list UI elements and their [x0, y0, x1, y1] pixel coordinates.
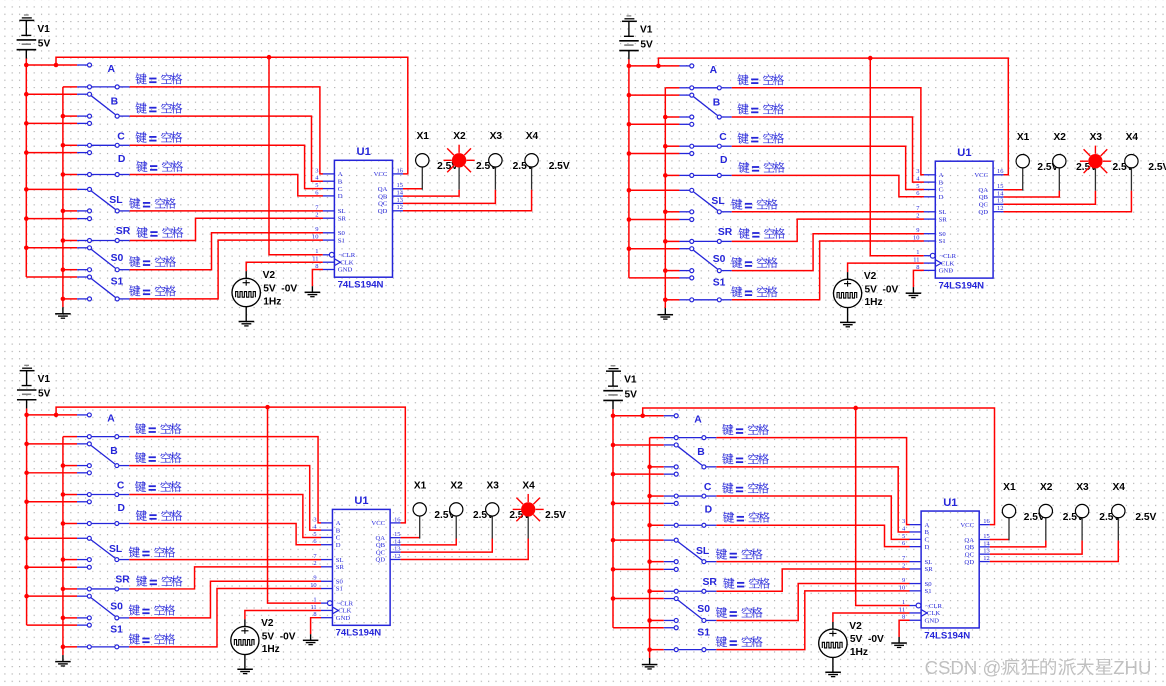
svg-text:V2: V2 [849, 621, 862, 632]
svg-text:D: D [705, 505, 713, 516]
svg-text:SL: SL [336, 557, 344, 564]
switch S1 (SPDT, key=space) [77, 275, 130, 301]
junction dot row A / top rail [656, 64, 661, 69]
probe lamp X4 [1125, 155, 1138, 191]
wire B-bottom feed from GND bus [665, 116, 679, 118]
svg-text:VCC: VCC [974, 172, 988, 179]
svg-text:SR: SR [939, 216, 948, 223]
svg-text:ZHU: ZHU [1113, 657, 1151, 678]
pin 2 (SR) stub [916, 212, 947, 223]
svg-text:9: 9 [313, 575, 316, 582]
IC U1 74LS194N body [921, 511, 979, 628]
label key = space (D) [723, 512, 770, 523]
svg-text:D: D [925, 544, 930, 551]
label key = space (S0) [716, 607, 763, 618]
junction dot row A / top rail [54, 413, 59, 418]
wire QA pin 15 to probe X1 [990, 539, 1009, 541]
svg-text:5V: 5V [38, 39, 51, 50]
wire switch S0 common to pin 9 [129, 581, 321, 618]
wire GND bus (second vertical) [62, 437, 64, 655]
wire SL-top feed from VCC bus [629, 189, 680, 191]
svg-text:13: 13 [394, 546, 400, 553]
svg-text:10: 10 [310, 582, 316, 589]
pin 9 (S0) stub [902, 577, 932, 588]
svg-text:16: 16 [983, 518, 990, 525]
junction dot row A / top rail [640, 413, 645, 418]
svg-text:15: 15 [394, 531, 400, 538]
svg-text:B: B [939, 179, 944, 186]
label key = space (SL) [129, 547, 175, 558]
svg-text:14: 14 [983, 540, 990, 547]
pin 13 (QC) stub [378, 197, 403, 208]
switch S0 (SPDT, key=space) [77, 594, 129, 620]
svg-text:SR: SR [115, 574, 130, 585]
wire VCC bus (left vertical) [25, 59, 27, 278]
probe lamp X4 [525, 154, 538, 190]
svg-text:B: B [111, 96, 119, 107]
svg-text:X4: X4 [522, 480, 535, 491]
svg-text:S0: S0 [713, 254, 726, 265]
wire S0-bottom feed from GND bus [63, 617, 77, 619]
svg-text:C: C [117, 481, 125, 492]
wire top rail to VCC pin16 [658, 58, 1008, 175]
wire C-top feed from VCC bus [27, 472, 77, 474]
svg-text:C: C [704, 482, 712, 493]
switch S1 (SPDT, key=space) [664, 626, 717, 652]
svg-text:SL: SL [696, 546, 710, 557]
svg-text:X4: X4 [1126, 132, 1139, 143]
svg-text:S0: S0 [336, 578, 344, 585]
svg-text:QC: QC [376, 549, 386, 556]
wire switch SL common to pin 7 [129, 559, 321, 561]
svg-text:74LS194N: 74LS194N [336, 628, 382, 639]
switch B (SPDT, key=space) [77, 442, 129, 468]
svg-text:14: 14 [394, 538, 401, 545]
label key = space (S1) [129, 285, 176, 296]
wire switch B common to pin 4 [129, 466, 321, 531]
wire SL-bottom feed from GND bus [63, 210, 77, 212]
svg-text:X3: X3 [490, 131, 503, 142]
wire switch D common to pin 6 [732, 175, 924, 196]
svg-text:11: 11 [913, 256, 919, 263]
wire QA pin 15 to probe X1 [1004, 189, 1023, 191]
pin 7 (SL) stub [916, 205, 946, 216]
wire S1-bottom feed from GND bus [665, 299, 679, 301]
ground at switch GND bus [658, 308, 674, 319]
wire switch A common to pin 3 [716, 438, 909, 525]
junction dots on VCC bus [24, 413, 29, 599]
switch SR (SPDT, key=space) [77, 565, 129, 591]
wire switch C common to pin 5 [716, 496, 909, 539]
wire switch C common to pin 5 [129, 495, 321, 538]
label key = space (C) [738, 133, 784, 144]
svg-text:X1: X1 [1017, 132, 1030, 143]
svg-text:U1: U1 [957, 147, 971, 159]
svg-text:SL: SL [711, 196, 725, 207]
svg-text:8: 8 [916, 264, 919, 271]
svg-text:SR: SR [703, 577, 718, 588]
svg-text:A: A [336, 520, 341, 527]
junction dot top rail / ~CLR [265, 405, 270, 410]
probe lamp X2 [1053, 155, 1066, 191]
svg-text:S0: S0 [925, 581, 933, 588]
svg-text:SR: SR [718, 227, 733, 238]
svg-text:3: 3 [315, 167, 318, 174]
probe lamp X4 [1112, 504, 1125, 540]
svg-text:GND: GND [336, 615, 351, 622]
probe lamp X3 [489, 154, 502, 190]
svg-text:9: 9 [315, 226, 318, 233]
svg-text:QD: QD [375, 557, 385, 564]
switch SL (SPDT, key=space) [679, 188, 731, 214]
wire VCC bus (left vertical) [612, 409, 614, 628]
pin 8 (GND) stub [313, 611, 350, 622]
pin 2 (SR) stub [315, 212, 346, 223]
pin 1 (CLR) stub [313, 597, 353, 608]
junction dot top rail / ~CLR [267, 55, 272, 60]
svg-text:S1: S1 [336, 586, 343, 593]
pin 9 (S0) stub [916, 227, 946, 238]
svg-text:QA: QA [964, 537, 974, 544]
probe lamp X3 [486, 503, 499, 539]
svg-text:VCC: VCC [960, 522, 974, 529]
wire B-top feed from VCC bus [613, 444, 664, 446]
switch SL (SPDT, key=space) [664, 538, 717, 564]
label key = space (S1) [716, 636, 763, 647]
wire switch SL common to pin 7 [732, 211, 924, 213]
pin 15 (QA) stub [964, 533, 989, 544]
wire ~CLR from top rail to pin 1 [269, 57, 323, 255]
svg-text:SL: SL [109, 195, 123, 206]
svg-text:~CLR: ~CLR [925, 603, 942, 610]
svg-text:1: 1 [902, 599, 905, 606]
wire switch S1 common to pin 10 [129, 589, 321, 647]
wire QB pin 14 to probe X2 [403, 190, 459, 196]
svg-text:15: 15 [983, 533, 990, 540]
junction dots on GND bus [61, 114, 66, 301]
switch A (SPDT, key=space) [77, 413, 129, 439]
svg-text:13: 13 [997, 198, 1003, 205]
svg-text:X1: X1 [414, 480, 427, 491]
pin 12 (QD) stub [964, 555, 989, 566]
svg-text:SR: SR [336, 564, 345, 571]
pin 8 (GND) stub [916, 264, 953, 275]
wire SL-bottom feed from GND bus [650, 561, 664, 563]
label key = space (C) [135, 481, 181, 492]
wire GND pin 8 to ground [311, 618, 322, 635]
wire QC pin 13 to probe X3 [990, 540, 1082, 554]
circuit copy 1 [17, 15, 570, 326]
power source V1 5V (battery with ground plate) [17, 365, 36, 408]
pin 7 (SL) stub [902, 555, 932, 566]
wire switch S0 common to pin 9 [130, 233, 323, 270]
svg-text:16: 16 [397, 167, 404, 174]
svg-text:B: B [336, 527, 341, 534]
wire A-bottom feed from GND bus [63, 436, 77, 438]
ground under V2 [239, 322, 255, 326]
wire QD pin 12 to probe X4 [1004, 191, 1132, 212]
wire S1-top feed (bus corner) [629, 277, 680, 279]
pin 3 (A) stub [313, 516, 340, 527]
svg-text:C: C [117, 131, 125, 142]
svg-text:14: 14 [997, 190, 1004, 197]
svg-text:5V: 5V [625, 389, 638, 400]
svg-text:5V: 5V [262, 631, 275, 642]
wire C-top feed from VCC bus [629, 123, 680, 125]
wire GND pin 8 to ground [913, 270, 924, 287]
svg-text:9: 9 [902, 577, 905, 584]
wire GND bus (second vertical) [62, 87, 64, 307]
wire SR-top feed from VCC bus [629, 219, 680, 221]
wire switch S0 common to pin 9 [716, 584, 909, 621]
svg-text:CLK: CLK [927, 610, 941, 617]
clock source V2 (5V 1Hz) [833, 272, 861, 322]
probe lamp X2 [1039, 504, 1052, 540]
wire SL-top feed from VCC bus [27, 537, 77, 539]
pin 4 (B) stub [916, 175, 943, 186]
svg-text:A: A [108, 64, 116, 75]
wire switch D common to pin 6 [130, 175, 323, 196]
label key = space (D) [136, 510, 182, 521]
pin 12 (QD) stub [375, 553, 400, 564]
label key = space (S1) [129, 633, 175, 644]
svg-text:QA: QA [978, 187, 988, 194]
switch C (SPDT, key=space) [679, 122, 731, 148]
wire D-bottom feed from GND bus [650, 524, 664, 526]
pin 6 (D) stub [916, 190, 943, 201]
svg-text:10: 10 [913, 234, 919, 241]
switch B (SPDT, key=space) [664, 443, 717, 469]
svg-text:5: 5 [916, 183, 919, 190]
pin 16 (VCC) stub [371, 516, 401, 527]
wire SR-top feed from VCC bus [26, 218, 77, 220]
svg-text:QC: QC [979, 201, 989, 208]
label key = space (A) [738, 74, 784, 85]
svg-text:VCC: VCC [371, 520, 385, 527]
pin 1 (CLR) stub [916, 249, 956, 260]
wire ~CLR from top rail to pin 1 [870, 58, 924, 256]
label key = space (SR) [739, 228, 785, 239]
svg-text:QA: QA [378, 186, 388, 193]
junction dots on VCC bus [627, 64, 632, 251]
wire row A-top feed [629, 65, 680, 67]
pin 14 (QB) stub [979, 190, 1005, 201]
svg-text:5V: 5V [640, 39, 653, 50]
svg-text:11: 11 [312, 256, 318, 263]
wire CLK from V2 to pin 11 [833, 613, 910, 622]
svg-text:X3: X3 [1076, 482, 1089, 493]
switch SR (SPDT, key=space) [679, 218, 731, 244]
circuit copy 4 [603, 366, 1156, 677]
svg-text:S0: S0 [939, 231, 947, 238]
pin 10 (S1) stub [913, 234, 946, 245]
svg-text:QD: QD [964, 559, 974, 566]
wire SR-top feed from VCC bus [27, 566, 77, 568]
pin 5 (C) stub [916, 183, 943, 194]
probe lamp X1 [1016, 155, 1029, 191]
svg-text:X1: X1 [1003, 482, 1016, 493]
switch C (SPDT, key=space) [77, 471, 129, 497]
wire S0-top feed from VCC bus [27, 595, 77, 597]
svg-text:S0: S0 [110, 601, 123, 612]
wire CLK from V2 to pin 11 [245, 610, 321, 619]
svg-text:-0V: -0V [868, 634, 884, 645]
wire A-bottom feed from GND bus [63, 86, 77, 88]
wire S1-top feed (bus corner) [613, 627, 664, 629]
watermark CSDN @疯狂的派大星ZHU [925, 657, 1152, 678]
wire S0-top feed from VCC bus [613, 598, 664, 600]
ground at chip GND pin [303, 634, 318, 644]
wire SR-bottom feed from GND bus [665, 240, 679, 242]
probe lamp X4 (lit) [513, 494, 544, 539]
IC U1 74LS194N body [935, 161, 993, 278]
svg-text:CLK: CLK [941, 260, 954, 267]
pin 8 (GND) stub [315, 263, 352, 274]
svg-text:8: 8 [315, 263, 318, 270]
switch S0 (SPDT, key=space) [664, 597, 717, 623]
svg-text:1Hz: 1Hz [262, 644, 280, 655]
pin 7 (SL) stub [313, 553, 343, 564]
pin 9 (S0) stub [315, 226, 345, 237]
svg-text:D: D [336, 542, 341, 549]
svg-text:X4: X4 [1112, 482, 1125, 493]
svg-text:1Hz: 1Hz [850, 647, 868, 658]
svg-text:QB: QB [378, 193, 388, 200]
probe lamp X2 (lit) [444, 145, 475, 190]
svg-text:SR: SR [338, 215, 347, 222]
pin 6 (D) stub [902, 540, 930, 551]
svg-text:B: B [338, 178, 343, 185]
svg-text:5: 5 [313, 531, 316, 538]
svg-text:12: 12 [394, 553, 400, 560]
pin 7 (SL) stub [315, 204, 345, 215]
wire QD pin 12 to probe X4 [403, 190, 532, 211]
clock source V2 (5V 1Hz) [232, 271, 260, 321]
label key = space (S0) [731, 257, 777, 268]
wire switch SR common to pin 2 [716, 569, 909, 591]
svg-text:S1: S1 [925, 588, 932, 595]
pin 11 (CLK) stub [899, 606, 941, 617]
svg-text:QA: QA [375, 535, 385, 542]
pin 1 (CLR) stub [902, 599, 943, 610]
wire S0-top feed from VCC bus [629, 248, 680, 250]
wire GND bus (second vertical) [649, 438, 651, 658]
svg-text:QD: QD [978, 209, 988, 216]
pin 12 (QD) stub [378, 204, 403, 215]
svg-text:-0V: -0V [281, 283, 297, 294]
pin 15 (QA) stub [375, 531, 400, 542]
wire row A-top feed [26, 64, 77, 66]
wire SR-bottom feed from GND bus [650, 590, 664, 592]
wire S1-bottom feed from GND bus [63, 298, 77, 300]
svg-text:12: 12 [983, 555, 990, 562]
svg-text:D: D [118, 154, 126, 165]
svg-text:V1: V1 [640, 25, 653, 36]
svg-text:CLK: CLK [338, 608, 351, 615]
wire D-top feed from VCC bus [27, 501, 77, 503]
svg-text:5: 5 [902, 533, 905, 540]
svg-text:2.5V: 2.5V [1135, 512, 1156, 523]
switch A (SPDT, key=space) [664, 414, 717, 440]
pin 3 (A) stub [902, 518, 930, 529]
wire switch SR common to pin 2 [732, 219, 924, 241]
wire QB pin 14 to probe X2 [1004, 191, 1060, 197]
svg-text:8: 8 [313, 611, 316, 618]
wire GND pin 8 to ground [312, 270, 323, 287]
switch SR (SPDT, key=space) [664, 567, 717, 593]
pin 11 (CLK) stub [312, 256, 354, 267]
wire switch S1 common to pin 10 [130, 240, 323, 299]
svg-text:SL: SL [925, 559, 933, 566]
switch D (SPDT, key=space) [77, 151, 130, 177]
probe lamp X3 [1075, 504, 1088, 540]
svg-text:12: 12 [997, 205, 1003, 212]
label key = space (D) [136, 161, 183, 172]
svg-text:QB: QB [965, 544, 975, 551]
clock source V2 (5V 1Hz) [819, 622, 847, 672]
svg-text:C: C [338, 186, 343, 193]
pin 13 (QC) stub [965, 548, 990, 559]
svg-text:X1: X1 [416, 131, 429, 142]
svg-text:A: A [710, 65, 718, 76]
svg-text:S1: S1 [110, 625, 123, 636]
pin 10 (S1) stub [310, 582, 343, 593]
pin 2 (SR) stub [313, 560, 344, 571]
wire A-bottom feed from GND bus [650, 437, 664, 439]
wire switch C common to pin 5 [130, 145, 323, 188]
svg-text:B: B [925, 529, 930, 536]
svg-text:74LS194N: 74LS194N [338, 280, 384, 291]
svg-text:~CLR: ~CLR [337, 600, 354, 607]
wire top rail to VCC pin16 [56, 407, 405, 523]
label key = space (SR) [137, 227, 184, 238]
switch D (SPDT, key=space) [77, 500, 129, 526]
power source V1 5V (battery with ground plate) [603, 366, 623, 410]
svg-text:D: D [939, 194, 944, 201]
switch A (SPDT, key=space) [77, 63, 130, 89]
pin 3 (A) stub [315, 167, 343, 178]
svg-text:11: 11 [310, 604, 316, 611]
pin 9 (S0) stub [313, 575, 343, 586]
wire QD pin 12 to probe X4 [990, 540, 1119, 561]
svg-text:B: B [713, 97, 721, 108]
svg-text:2.5V: 2.5V [545, 510, 566, 521]
svg-text:5: 5 [315, 182, 318, 189]
svg-text:QB: QB [376, 542, 386, 549]
switch C (SPDT, key=space) [77, 121, 130, 147]
pin 12 (QD) stub [978, 205, 1003, 216]
svg-text:3: 3 [916, 168, 919, 175]
svg-text:U1: U1 [357, 146, 371, 158]
svg-text:SR: SR [925, 566, 934, 573]
pin 11 (CLK) stub [913, 256, 954, 267]
svg-text:D: D [118, 503, 125, 514]
svg-text:10: 10 [899, 584, 906, 591]
wire B-bottom feed from GND bus [650, 466, 664, 468]
ground at chip GND pin [906, 287, 922, 298]
svg-text:V2: V2 [263, 270, 276, 281]
label key = space (A) [136, 73, 183, 84]
pin 8 (GND) stub [902, 614, 939, 625]
wire S0-top feed from VCC bus [26, 247, 77, 249]
wire B-bottom feed from GND bus [63, 465, 77, 467]
wire S1-bottom feed from GND bus [63, 646, 77, 648]
wire B-top feed from VCC bus [629, 94, 680, 96]
svg-text:14: 14 [397, 190, 404, 197]
wire switch A common to pin 3 [130, 87, 323, 174]
svg-text:U1: U1 [943, 497, 957, 509]
svg-text:1Hz: 1Hz [864, 297, 882, 308]
